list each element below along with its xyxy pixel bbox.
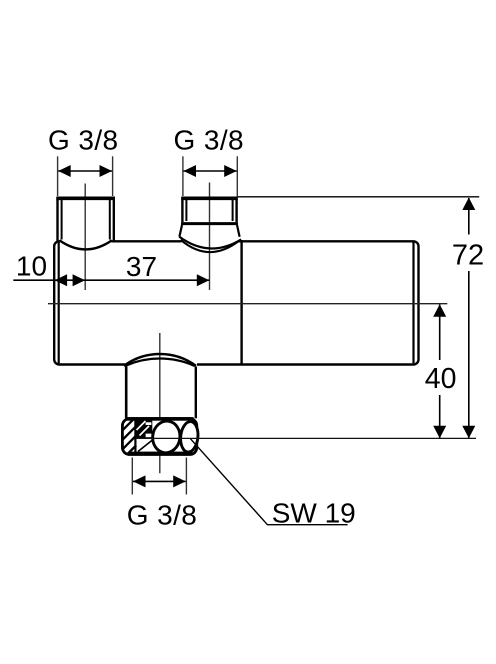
body horizontal centerline <box>48 303 447 305</box>
top-left G3/8 dimension line <box>58 170 112 172</box>
right port double saddle arc <box>179 237 241 249</box>
top-right G3/8 extension lines <box>182 156 184 196</box>
body outline <box>54 241 418 364</box>
nut bottom bar <box>128 452 192 456</box>
svg-text:SW 19: SW 19 <box>272 498 356 529</box>
arrow pointing right tip at right port centerline <box>197 274 210 286</box>
svg-text:G 3/8: G 3/8 <box>174 125 244 156</box>
body right end cap inner line <box>412 243 414 364</box>
nut left face hatching <box>123 419 136 453</box>
body mid vertical edge <box>240 240 242 364</box>
40 dimension line <box>439 305 441 361</box>
SW 19 leader line <box>191 439 348 525</box>
nut hex edge line left <box>134 420 136 453</box>
left port G3/8 saddle arc <box>60 240 112 249</box>
diagonal below blob <box>138 439 153 451</box>
svg-text:10: 10 <box>16 251 47 282</box>
right port body <box>179 198 239 237</box>
arrow left at body edge pointing left <box>55 274 68 286</box>
nut dark section blob <box>136 419 153 439</box>
top-left G3/8 extension lines <box>57 156 59 196</box>
72 top extension line <box>237 196 480 198</box>
nut center ellipse face <box>151 419 182 454</box>
bottom port shoulder double arc <box>124 354 196 366</box>
right port centerline <box>209 183 211 291</box>
svg-text:G 3/8: G 3/8 <box>127 499 197 530</box>
mask top edge at left port opening <box>60 239 112 244</box>
bottom G3/8 extension lines <box>131 458 133 495</box>
bottom port centerline <box>159 333 161 473</box>
svg-text:40: 40 <box>425 363 457 395</box>
arrow pointing right tip at left port centerline <box>73 274 86 286</box>
body left end cap inner line <box>58 243 60 364</box>
10/37 dimension line <box>13 279 209 281</box>
mask top edge at right port opening <box>182 239 239 244</box>
left port centerline <box>84 184 86 291</box>
bottom port sides <box>125 367 128 419</box>
svg-text:72: 72 <box>452 240 484 272</box>
outlet axis / bottom reference line <box>136 437 476 439</box>
nut top bar <box>125 417 193 421</box>
mask bottom edge at bottom port opening <box>125 362 197 368</box>
bottom G3/8 dimension line <box>133 480 186 482</box>
top-right G3/8 dimension line <box>184 170 237 172</box>
left port body <box>56 198 115 241</box>
nut SW19 outline <box>122 419 196 455</box>
svg-text:G 3/8: G 3/8 <box>48 125 118 156</box>
nut right ellipse face <box>179 421 199 453</box>
72 dimension line <box>468 198 470 235</box>
svg-text:37: 37 <box>126 251 157 282</box>
